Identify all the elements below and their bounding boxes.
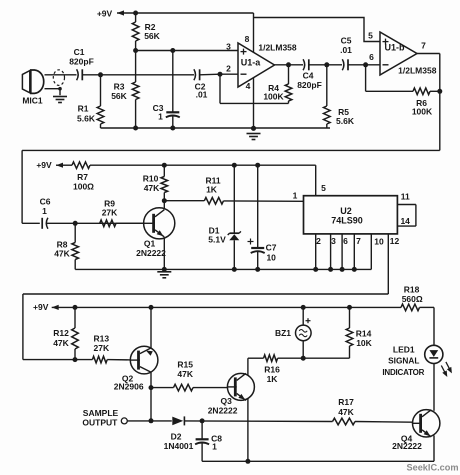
svg-text:2: 2 [316, 236, 321, 246]
svg-text:D2: D2 [171, 431, 182, 441]
svg-text:2: 2 [226, 64, 231, 74]
capacitor C3 [153, 51, 180, 129]
node Q3 emitter rail junction [245, 459, 250, 464]
svg-text:R12: R12 [53, 328, 69, 338]
wire Q1 base [116, 222, 144, 224]
svg-text:R15: R15 [177, 360, 193, 370]
svg-text:R7: R7 [77, 172, 88, 182]
svg-text:100K: 100K [412, 107, 433, 117]
svg-text:47K: 47K [338, 407, 354, 417]
supply +9V (top rail label) [97, 9, 124, 19]
svg-text:1/2LM358: 1/2LM358 [258, 43, 297, 53]
pin 2 label [226, 64, 231, 74]
svg-text:3: 3 [226, 42, 231, 52]
resistor R18 [401, 284, 434, 344]
wire U1-b out to C6 [22, 150, 440, 223]
pin 6 label [369, 52, 374, 62]
wire LED to Q4 [433, 364, 435, 411]
resistor R11 [204, 176, 223, 205]
node R1 tap [98, 72, 103, 77]
wire U2 pin6 [340, 234, 345, 272]
pin 6 label (U2) [343, 236, 348, 246]
pin 10 label [374, 236, 384, 246]
node R4 tap [286, 62, 291, 67]
watermark [406, 463, 458, 473]
supply +9V (stage2 label) [36, 160, 63, 170]
node U1-a pin4 rail junction [251, 126, 256, 131]
svg-text:56K: 56K [144, 31, 160, 41]
svg-text:.01: .01 [196, 90, 208, 100]
resistor R13 [92, 334, 110, 363]
svg-text:5.6K: 5.6K [77, 114, 96, 124]
ground (mic) [53, 97, 67, 103]
svg-text:2N2222: 2N2222 [392, 441, 422, 451]
svg-text:U2: U2 [340, 206, 352, 216]
svg-text:6: 6 [343, 236, 348, 246]
node C7 top junction [255, 163, 260, 168]
pin 11 label [401, 192, 410, 202]
resistor R14 [346, 307, 372, 358]
svg-text:56K: 56K [111, 91, 127, 101]
capacitor C8 [195, 421, 222, 461]
wire U2 pin11-pin14 loop [397, 205, 416, 227]
svg-text:+9V: +9V [97, 9, 113, 19]
svg-text:10: 10 [266, 253, 276, 263]
node R3 rail junction [133, 126, 138, 131]
node pin3-R2 junction [133, 48, 138, 53]
node R6-pin6 junction [363, 62, 368, 67]
svg-text:R18: R18 [404, 284, 420, 294]
wire U1-a pin8 [253, 13, 255, 52]
wire U1-a pin3 net [136, 50, 238, 52]
node R10 top junction [162, 163, 167, 168]
svg-text:R10: R10 [143, 174, 159, 184]
terminal SAMPLE OUTPUT [82, 408, 127, 428]
svg-text:5: 5 [368, 31, 373, 41]
svg-text:+9V: +9V [33, 302, 49, 312]
capacitor C7 (electrolytic) [248, 165, 277, 269]
node Q1 collector junction [162, 198, 167, 203]
resistor R12 [53, 307, 78, 359]
LED LED1 [382, 345, 443, 377]
svg-text:820pF: 820pF [297, 80, 322, 90]
svg-text:R1: R1 [78, 104, 89, 114]
svg-text:27K: 27K [102, 208, 118, 218]
pin 14 label [400, 216, 410, 226]
svg-text:100Ω: 100Ω [73, 182, 94, 192]
svg-text:+9V: +9V [36, 160, 52, 170]
microphone MIC1 [22, 70, 43, 106]
svg-text:1: 1 [293, 191, 298, 201]
wire ground rail (stage1) [101, 127, 331, 129]
svg-text:820pF: 820pF [69, 57, 94, 67]
node R5 tap [324, 62, 329, 67]
buzzer BZ1 [275, 307, 311, 358]
node Q1 emitter rail junction [162, 267, 167, 272]
svg-text:SeekIC.com: SeekIC.com [406, 463, 458, 473]
wire Q4 emitter [433, 436, 435, 462]
svg-text:C7: C7 [266, 243, 277, 253]
pin 4 label [246, 81, 251, 91]
svg-text:1/2LM358: 1/2LM358 [398, 65, 437, 75]
wire U2 pin3 [328, 234, 333, 272]
pin 1 label (U2) [293, 191, 298, 201]
wire U2 pin12 to stage3 [23, 234, 388, 360]
resistor R6 [366, 65, 440, 117]
wire C2 to pin2 [200, 73, 238, 76]
svg-text:BZ1: BZ1 [275, 328, 291, 338]
svg-text:R17: R17 [338, 397, 354, 407]
pin 12 label [390, 236, 400, 246]
svg-text:1: 1 [42, 206, 47, 216]
pin 8 label [245, 34, 250, 44]
capacitor C5 [340, 36, 352, 71]
svg-text:47K: 47K [54, 249, 70, 259]
wire U1-b output [417, 54, 440, 151]
svg-text:10K: 10K [356, 338, 372, 348]
node C3 rail junction [170, 126, 175, 131]
node R2 top junction [133, 11, 138, 16]
svg-text:U1-a: U1-a [241, 57, 262, 67]
svg-text:2N2222: 2N2222 [136, 248, 166, 258]
resistor R2 [132, 13, 160, 51]
mic capsule (dashed) [53, 70, 64, 86]
LED emission arrows [441, 362, 452, 377]
svg-text:1K: 1K [206, 185, 218, 195]
pin 5 label (U2) [321, 183, 326, 193]
svg-text:10: 10 [374, 236, 384, 246]
node Q2-R15 junction [149, 385, 154, 390]
svg-text:SAMPLE: SAMPLE [83, 408, 119, 418]
node C8 junction [200, 418, 205, 423]
svg-text:100K: 100K [263, 92, 284, 102]
svg-text:74LS90: 74LS90 [331, 216, 363, 226]
pin 2 label [316, 236, 321, 246]
svg-text:14: 14 [400, 216, 410, 226]
wire U1-a pin4 [253, 78, 255, 128]
wire Q3 emitter [247, 399, 249, 461]
transistor Q3 2N2222 [208, 373, 255, 415]
wire Q2 emitter [150, 307, 152, 348]
svg-text:11: 11 [401, 192, 410, 202]
node BZ1 top junction [301, 305, 306, 310]
resistor R5 [324, 65, 355, 128]
node Q2-output junction [149, 418, 154, 423]
svg-text:4: 4 [246, 81, 251, 91]
svg-text:OUTPUT: OUTPUT [82, 418, 118, 428]
svg-text:MIC1: MIC1 [22, 96, 43, 106]
wire C6 to Q1 base [46, 222, 144, 224]
svg-text:3: 3 [331, 236, 336, 246]
resistor R15 [151, 360, 227, 391]
resistor R8 [54, 223, 78, 269]
svg-text:U1-b: U1-b [385, 43, 406, 53]
node Q2 emitter junction [149, 305, 154, 310]
pin 3 label (U2) [331, 236, 336, 246]
svg-text:12: 12 [390, 236, 400, 246]
op-amp U1-a [238, 43, 275, 87]
svg-text:1: 1 [212, 442, 217, 452]
svg-text:C5: C5 [341, 36, 352, 46]
wire Q2 collector [150, 372, 152, 421]
svg-text:27K: 27K [94, 343, 110, 353]
diode D2 [164, 416, 194, 451]
node R6 output junction [437, 89, 442, 94]
svg-text:C4: C4 [303, 71, 314, 81]
resistor R7 [56, 162, 94, 192]
node D1 top junction [232, 163, 237, 168]
svg-text:47K: 47K [144, 183, 160, 193]
svg-text:5: 5 [321, 183, 326, 193]
wire mic return [45, 87, 62, 95]
wire Q2 base net [23, 359, 130, 361]
pin 7 label [421, 41, 426, 51]
node D1 rail junction [232, 267, 237, 272]
svg-text:7: 7 [356, 236, 361, 246]
node R14 top junction [347, 305, 352, 310]
node R12 top junction [73, 305, 78, 310]
transistor Q2 2N2906 [114, 346, 158, 391]
wire Q1 emitter [163, 237, 165, 269]
svg-text:LED1: LED1 [393, 345, 415, 355]
svg-text:8: 8 [245, 34, 250, 44]
svg-text:5.6K: 5.6K [336, 116, 355, 126]
zener diode D1 [208, 165, 241, 269]
svg-text:INDICATOR: INDICATOR [382, 368, 424, 377]
svg-text:1: 1 [158, 112, 163, 122]
wire R11 net [164, 200, 303, 203]
node C7 rail junction [255, 267, 260, 272]
IC U2 74LS90 [304, 196, 398, 234]
svg-text:2N2222: 2N2222 [208, 405, 238, 415]
wire Q3 collector [247, 358, 249, 375]
node R12 base junction [73, 357, 78, 362]
capacitor C2 [194, 69, 208, 99]
wire Q1 collector [163, 201, 165, 210]
svg-text:C1: C1 [74, 47, 85, 57]
op-amp U1-b [380, 32, 417, 75]
wire +9V rail [117, 12, 254, 14]
wire output net [127, 421, 412, 422]
ground (U1-a) [247, 134, 261, 140]
svg-text:.01: .01 [340, 45, 352, 55]
resistor R10 [143, 165, 168, 201]
capacitor C4 [297, 59, 322, 90]
wire +9V rail (stage3) [52, 306, 401, 308]
pin 3 label [226, 42, 231, 52]
svg-text:1K: 1K [267, 374, 279, 384]
ground (Q1 emitter) [157, 272, 171, 278]
wire C5 to pin6 [348, 64, 380, 66]
supply +9V (stage3 label) [33, 302, 59, 312]
capacitor C1 [69, 47, 94, 80]
svg-text:47K: 47K [53, 338, 69, 348]
pin 7 label (U2) [356, 236, 361, 246]
wire U2 pin10 [370, 234, 372, 270]
transistor Q1 2N2222 [136, 208, 175, 259]
svg-text:7: 7 [421, 41, 426, 51]
wire C1 to C2 [82, 74, 194, 76]
resistor R17 [333, 397, 356, 425]
resistor R16 [248, 355, 303, 384]
wire 5V rail [90, 165, 316, 196]
wire mic output [45, 74, 77, 76]
svg-text:1N4001: 1N4001 [164, 441, 194, 451]
node R8-R9 junction [73, 221, 78, 226]
wire C4 to C5 [309, 64, 342, 66]
label 1/2LM358 (U1-a) [258, 43, 297, 53]
transistor Q4 2N2222 [392, 410, 440, 451]
resistor R3 [111, 51, 139, 129]
svg-text:5.1V: 5.1V [208, 234, 226, 244]
wire ground rail (stage3) [202, 460, 434, 462]
pin 5 label [368, 31, 373, 41]
svg-text:SIGNAL: SIGNAL [388, 356, 419, 366]
svg-text:47K: 47K [177, 369, 193, 379]
wire +9V to U1-b pin5 [254, 18, 381, 42]
label 1/2LM358 (U1-b) [398, 65, 437, 75]
wire U2 pin2 [313, 234, 318, 272]
node pin3-C3 junction [170, 48, 175, 53]
svg-text:2N2906: 2N2906 [114, 382, 144, 392]
svg-text:R3: R3 [114, 82, 125, 92]
svg-text:C6: C6 [40, 197, 51, 207]
svg-text:560Ω: 560Ω [402, 294, 423, 304]
capacitor C6 [40, 197, 51, 229]
svg-text:Q1: Q1 [144, 239, 156, 249]
node BZ1 bottom junction [301, 356, 306, 361]
wire BZ1-R14 link [303, 357, 349, 359]
svg-text:6: 6 [369, 52, 374, 62]
wire ground rail (stage2) [75, 268, 371, 270]
resistor R9 [100, 199, 118, 227]
wire U2 pin7 [352, 234, 357, 272]
node feedback-pin2 junction [218, 72, 223, 77]
wire U1-a output [275, 64, 304, 66]
resistor R4 [220, 65, 292, 104]
resistor R1 [77, 75, 104, 128]
